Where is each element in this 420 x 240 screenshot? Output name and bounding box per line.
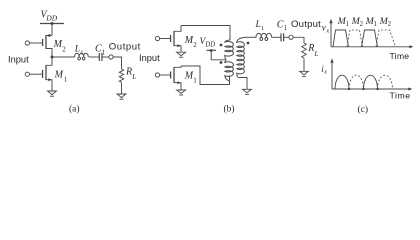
ix y-axis [331,63,333,90]
svg-text:2: 2 [388,21,392,28]
label RL (a) [125,67,136,81]
input terminal circle (M1b gate) [155,73,159,77]
ground symbol (M1 source) [48,91,57,96]
polarity dot secondary [247,42,250,45]
svg-text:1: 1 [64,75,68,83]
input terminal circle (M1 gate) [25,72,29,76]
wire VDD to M2 source [51,24,53,36]
svg-text:L: L [74,45,80,55]
capacitor C1 (a) [99,53,102,61]
ground symbol (M2b source) [177,52,186,57]
svg-text:1: 1 [193,76,197,84]
inductor L1 (b) [256,33,272,40]
svg-text:2: 2 [360,21,364,28]
inductor L1 (a) [75,53,89,60]
wire RL to ground (b) [303,58,305,71]
transistor M2 (a) [30,34,52,57]
vx y-axis [330,22,332,47]
svg-text:Input: Input [8,54,29,64]
svg-text:M: M [54,70,64,81]
svg-text:L: L [255,20,261,30]
wire node to L1 [54,56,75,58]
label L1 (a) [74,45,84,57]
svg-text:1: 1 [346,21,349,28]
transformer T1 primary winding [225,40,234,85]
ix waveform dashed humps [349,75,393,89]
wire RL to ground [121,82,123,94]
wire secondary bottom to ground [238,78,247,90]
transistor M1 (a) [30,58,52,92]
svg-text:Time: Time [390,51,410,61]
label C1 (b) [277,19,288,32]
label L1 (b) [255,20,265,32]
wire VDD to center tap [211,50,225,60]
polarity dot primary top [220,44,223,47]
phase label M1 [337,16,349,28]
svg-text:Input: Input [139,53,160,63]
label RL (b) [307,43,318,58]
svg-text:DD: DD [204,41,215,48]
svg-text:Output: Output [109,42,141,53]
wire M1b drain to transformer primary bottom [181,66,230,85]
svg-text:x: x [325,28,329,34]
svg-text:2: 2 [62,45,66,53]
wire C1 to output terminal (b) [284,36,289,38]
wire output to RL [113,57,121,69]
resistor RL (b) [302,43,307,58]
svg-text:1: 1 [284,24,288,32]
resistor RL (a) [119,69,123,82]
wire secondary top to L1 [246,36,257,38]
ground symbol (secondary) [243,89,252,94]
svg-text:v: v [322,23,326,33]
phase label M2 [351,16,364,28]
svg-text:L: L [314,50,319,58]
junction dot ix 2 [362,88,364,90]
ix x-axis [332,88,410,90]
wire output to RL (b) [293,37,304,43]
label M2 (b) [184,35,197,49]
svg-text:(b): (b) [224,104,235,115]
output terminal circle (b) [289,35,293,39]
svg-text:1: 1 [80,50,83,57]
label M2 (a) [53,39,67,53]
vx x-axis [331,46,411,48]
svg-text:1: 1 [102,48,106,56]
svg-text:1: 1 [374,21,377,28]
ground symbol (M1b source) [177,90,186,95]
phase label M2 second [379,16,392,28]
transformer T1 secondary winding [237,37,246,77]
supply VDD label (b) [200,37,216,48]
ground symbol (RL b) [300,71,309,76]
wire C1 to output terminal [102,56,109,58]
supply VDD label (a) [41,10,58,23]
ix waveform solid humps [335,75,378,89]
svg-text:2: 2 [193,41,197,49]
phase label M1 second [365,16,377,28]
svg-text:(c): (c) [358,104,369,115]
ground symbol (RL a) [117,94,126,99]
VDD bar (b) [207,49,217,51]
svg-text:M: M [53,39,63,50]
transistor M1 (b) [160,66,181,90]
node dot (a) drain junction [51,56,54,59]
junction dot VDD (b) [210,49,213,52]
capacitor C1 (b) [281,33,284,41]
junction dot ix 3 [376,88,378,90]
wire M2b drain to transformer primary top [181,26,230,41]
svg-text:R: R [307,43,314,54]
label ix [321,64,327,76]
transistor M2 (b) [160,26,181,52]
svg-text:x: x [323,70,327,76]
junction dot on VDD rail [51,22,54,25]
svg-text:(a): (a) [69,104,80,115]
svg-text:L: L [131,73,136,81]
input terminal circle (M2 gate) [25,41,29,45]
label M1 (a) [54,70,68,84]
svg-text:Output: Output [291,19,321,30]
vx waveform solid (M1 phases) [333,30,378,47]
output terminal circle (a) [109,55,113,59]
svg-text:1: 1 [261,25,264,32]
svg-text:DD: DD [45,13,57,22]
label M1 (b) [184,71,197,85]
junction dot ix 1 [348,88,350,90]
wire L1 to C1 (b) [272,36,281,38]
vx waveform dashed (M2 phases) [347,30,396,47]
svg-text:Time: Time [390,91,411,101]
polarity dot primary bottom [220,61,223,64]
svg-text:R: R [125,67,132,78]
label C1 (a) [95,44,106,57]
label vx [322,23,330,35]
wire L1 to C1 [89,56,100,58]
VDD rail bar (a) [40,23,64,25]
input terminal circle (M2b gate) [155,36,159,40]
